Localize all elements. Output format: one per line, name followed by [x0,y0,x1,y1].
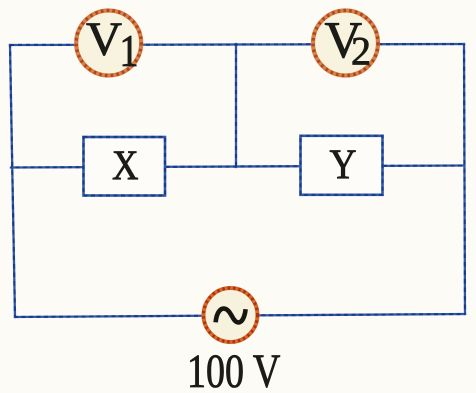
svg-text:V: V [86,13,122,66]
svg-text:Y: Y [330,142,357,189]
svg-text:X: X [112,143,139,190]
svg-text:2: 2 [351,29,371,74]
svg-text:1: 1 [120,26,139,76]
svg-text:100 V: 100 V [187,346,280,393]
